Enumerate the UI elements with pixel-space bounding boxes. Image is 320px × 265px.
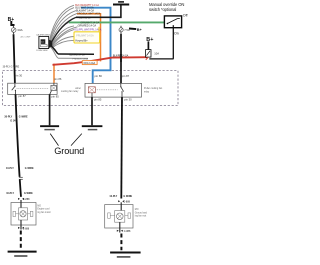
wire fuse F3 feed crossing (overdraw) (120, 54, 122, 62)
connector C-888 (motor M1 bottom) (18, 225, 30, 230)
svg-text:A/C COMP: A/C COMP (21, 36, 32, 39)
svg-text:Off: Off (183, 14, 188, 18)
wire stub GRY (58, 57, 88, 59)
svg-text:Engine cool: Engine cool (37, 209, 49, 211)
svg-text:pin 86: pin 86 (54, 77, 62, 81)
svg-text:Keyed B+: Keyed B+ (76, 38, 89, 42)
wire fuse F3 to relay R2 pin 87 (120, 34, 122, 84)
ground G2 (82, 126, 103, 129)
B+ terminal bar (118, 1, 124, 3)
svg-text:10-PLY: 10-PLY (109, 195, 117, 198)
svg-text:pin 87: pin 87 (18, 94, 26, 98)
svg-text:10-PLY: 10-PLY (6, 167, 14, 170)
wire stub BLK (to A/C switch) (58, 53, 94, 55)
yellow highlight box (Keyed B+) (74, 32, 100, 43)
svg-text:GRN/RED 14 GA: GRN/RED 14 GA (78, 24, 97, 27)
svg-text:pin 30: pin 30 (15, 74, 23, 78)
manual override switch S1 (149, 2, 188, 36)
svg-text:B+: B+ (146, 37, 153, 43)
svg-text:G WIRE: G WIRE (24, 192, 33, 195)
wire RED 14GA (fuse F2 to relay coils) (53, 57, 149, 65)
wire bundle black leads (51, 17, 76, 43)
ground G1 (40, 126, 59, 129)
fuse F2 10A (146, 50, 160, 60)
ground G4 (110, 253, 141, 257)
node B+ (override feed) (146, 37, 153, 49)
svg-text:PNK/BLK 14GA: PNK/BLK 14GA (73, 58, 89, 61)
svg-text:10A: 10A (154, 52, 159, 56)
svg-text:pin 87: pin 87 (122, 74, 130, 78)
fan motor M1 (pusher engine cooling fan motor) (11, 200, 36, 225)
relay module dashed enclosure (3, 71, 178, 106)
svg-text:MO: MO (135, 209, 139, 211)
wire relay R1 pin 87 to fan motor M1 (16, 94, 22, 196)
relay R2 coil (88, 87, 95, 93)
connector C1 (harness plug) (21, 34, 51, 53)
wire B+ fuse to relay R1 pin30 (14, 34, 15, 83)
svg-text:pin 85: pin 85 (51, 95, 59, 99)
svg-text:C-888: C-888 (124, 230, 131, 233)
relay R1 (pusher cooling fan relay) (8, 74, 62, 99)
svg-text:G WIRE: G WIRE (25, 167, 34, 170)
svg-text:MO: MO (37, 205, 41, 207)
splice (19, 177, 24, 180)
svg-text:30-PLY G WIRE: 30-PLY G WIRE (3, 67, 20, 69)
fuse F1 30A (11, 26, 22, 34)
svg-text:G WIRE: G WIRE (123, 195, 132, 198)
svg-text:Ground: Ground (54, 146, 84, 156)
wire bundle (gray harness curves) (50, 5, 78, 47)
svg-text:cooling fan relay: cooling fan relay (61, 90, 79, 93)
wire switch S1 to fuse F2 node (172, 28, 174, 59)
svg-text:CONN VIEW: CONN VIEW (36, 50, 48, 52)
ground G3 (8, 252, 37, 256)
node B+ (left battery feed) (8, 17, 15, 25)
wire green (to override switch) (69, 21, 164, 23)
wire switch node to fuse F2 (149, 58, 173, 60)
svg-text:ORG/BLK WHT 14GA: ORG/BLK WHT 14GA (77, 13, 101, 16)
connector C-888 (motor M1 top) (18, 198, 30, 201)
svg-text:Ground and: Ground and (135, 211, 148, 214)
svg-text:C-888: C-888 (123, 200, 130, 203)
wire motor M1 to ground (dashed) (20, 231, 22, 250)
wire black row5 to B+ bar (76, 5, 121, 17)
svg-text:10-PLY: 10-PLY (6, 192, 14, 195)
fan motor M2 (puller engine cooling fan motor) (105, 202, 133, 228)
svg-text:G WIRE: G WIRE (19, 116, 28, 119)
node B+ (relay 2 feed) (129, 28, 143, 32)
svg-text:relay: relay (144, 90, 150, 93)
wire relay R2 pin 30 to fan motor M2 (120, 97, 123, 198)
svg-text:YEL/PPL WHT/PPL 14GA: YEL/PPL WHT/PPL 14GA (74, 28, 102, 31)
wire label chip ORG 14 GA (82, 61, 97, 65)
svg-text:G 14/2: G 14/2 (10, 120, 18, 123)
connector C-888 (motor M2 top) (118, 200, 130, 203)
svg-text:30-PLY: 30-PLY (4, 116, 12, 119)
svg-text:C-888: C-888 (23, 227, 30, 230)
svg-text:C-888: C-888 (23, 198, 30, 201)
svg-text:PPL/WHT 14 GA: PPL/WHT 14 GA (76, 34, 94, 37)
svg-text:pin 86: pin 86 (95, 74, 103, 78)
svg-text:switch *optional: switch *optional (149, 7, 176, 12)
svg-text:ing fan motor: ing fan motor (37, 211, 51, 214)
fuse F3 7.5A (feed to relay R2 pin 87) (119, 26, 130, 34)
relay R1 coil (51, 85, 57, 90)
connector C-888 (motor M2 bottom) (117, 228, 131, 233)
svg-text:BLK/RD 14 GA: BLK/RD 14 GA (70, 53, 86, 56)
svg-text:pin 85: pin 85 (94, 98, 102, 102)
svg-text:30A: 30A (17, 28, 22, 32)
wire blue (to relay R2 pin 86) (81, 8, 111, 84)
wire relay R1 pin 85 to ground (49, 94, 51, 125)
svg-text:B+: B+ (137, 28, 143, 32)
wire motor M2 to ground (dashed) (120, 234, 122, 251)
svg-text:On: On (174, 32, 179, 36)
wire relay R2 pin 85 to ground (91, 97, 93, 125)
wire orange (to relay R1 pin 86) (77, 14, 101, 62)
label Ground with pointer lines (50, 134, 84, 156)
relay R2 (puller cooling fan relay) (85, 74, 142, 101)
svg-text:ORG 14GA: ORG 14GA (83, 62, 95, 65)
svg-text:ing fan mot: ing fan mot (135, 215, 147, 218)
svg-text:pin 30: pin 30 (124, 97, 132, 101)
